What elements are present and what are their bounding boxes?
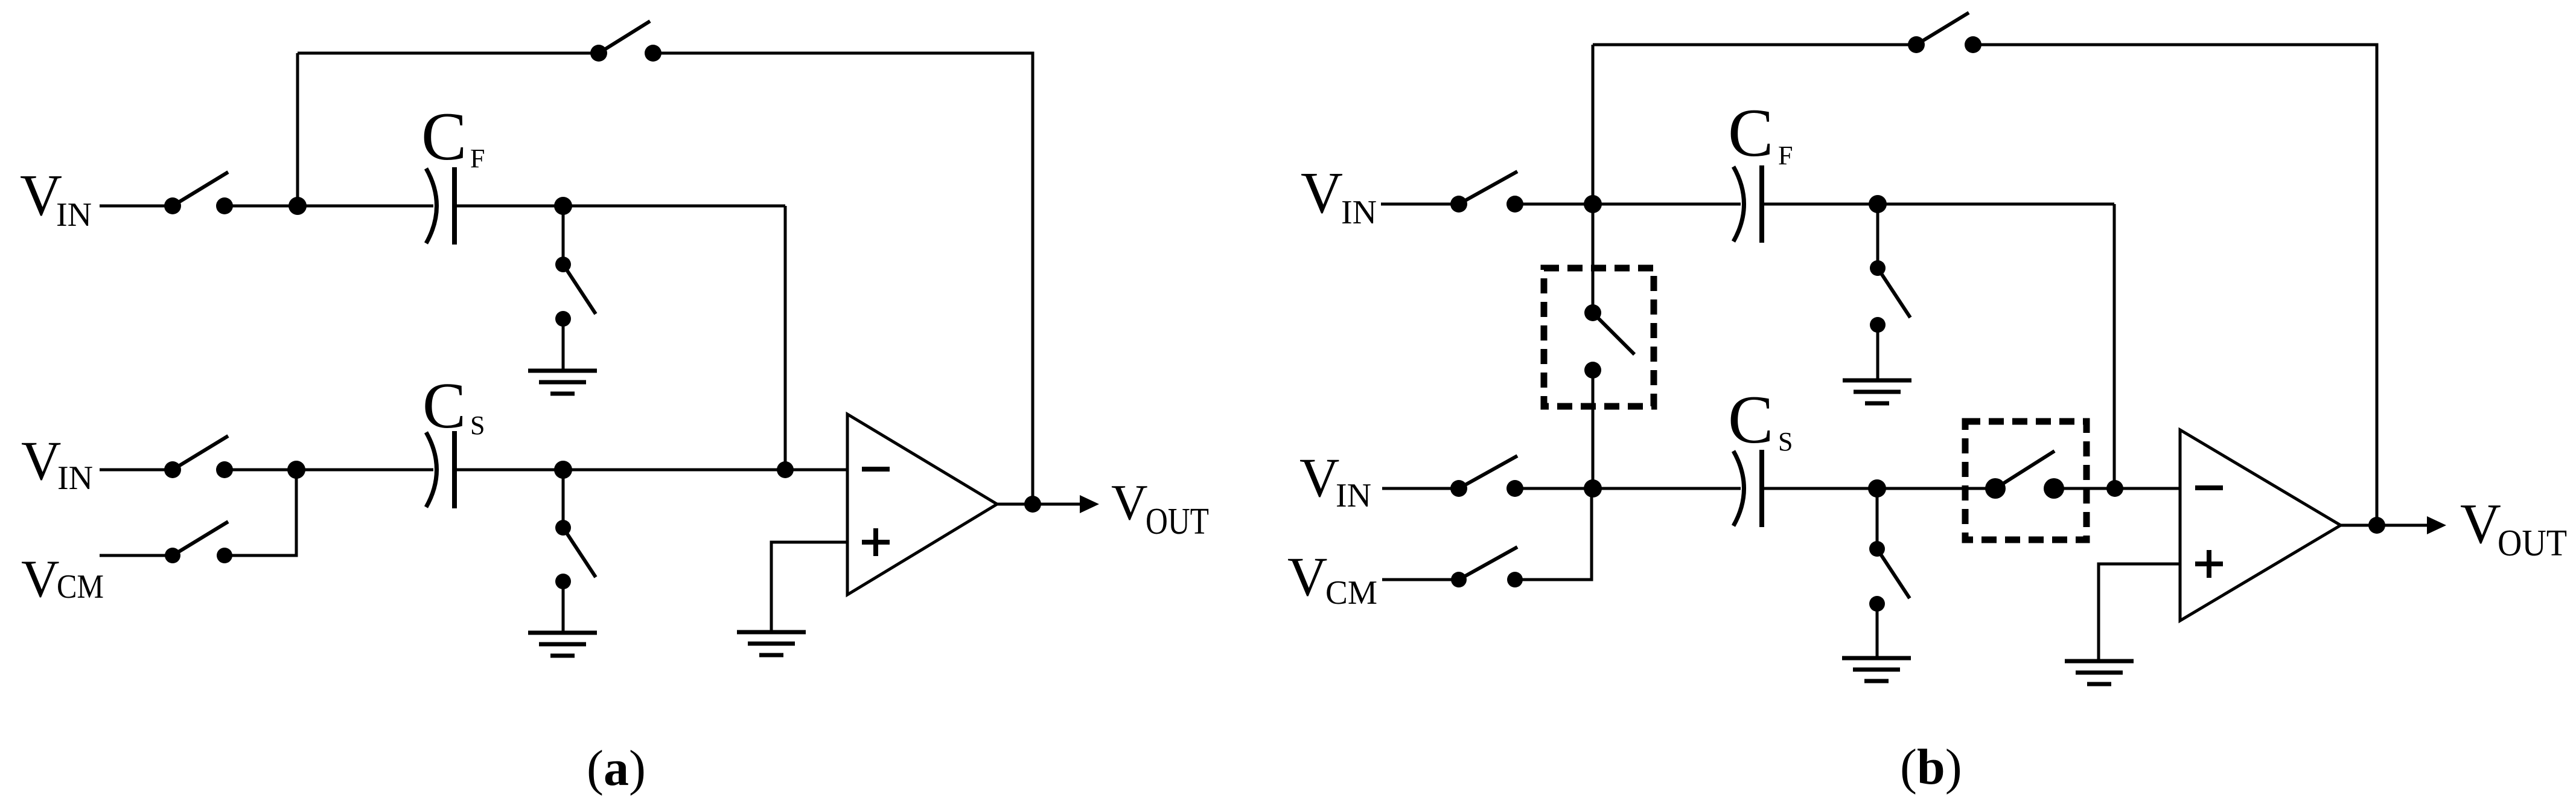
switch S8b (inside DB2, horizontal) xyxy=(1985,451,2064,499)
node C junction VCM join (b) xyxy=(1584,479,1602,497)
wire junction to CF (b) xyxy=(1593,203,1741,206)
node E summing junction (b) xyxy=(2106,480,2123,497)
wire CF to corner xyxy=(454,205,785,208)
capacitor CF (b) xyxy=(1733,165,1762,243)
wire VCM to junction xyxy=(225,470,296,555)
arrow output (a) xyxy=(1080,495,1099,513)
node A junction (b) xyxy=(1584,195,1602,213)
switch S2b (feedback, open) xyxy=(1908,13,1981,53)
dashed box DB2 xyxy=(1965,421,2087,540)
capacitor CS (b) xyxy=(1733,450,1762,527)
svg-text:IN: IN xyxy=(56,196,92,234)
capacitor CS (a) xyxy=(426,431,454,508)
op-amp U1a plus sign xyxy=(862,528,890,556)
node VOUT (a) label xyxy=(1111,475,1209,542)
label CS (a) xyxy=(422,370,485,442)
wire switch to CS (b) xyxy=(1515,487,1741,490)
wire top feedback right segment xyxy=(653,53,1033,504)
node VOUT (b) label xyxy=(2460,493,2567,564)
wire switch to ground stem (b) xyxy=(1876,325,1879,380)
node C junction VCM join (a) xyxy=(287,461,305,479)
switch S6b (VCM, open) xyxy=(1451,547,1523,587)
wire switch to ground stem (b) xyxy=(1876,604,1879,658)
wire top feedback right segment (b) xyxy=(1973,45,2377,525)
ground G1a xyxy=(528,371,597,394)
svg-text:V: V xyxy=(1299,447,1339,508)
svg-text:OUT: OUT xyxy=(2498,523,2567,564)
switch S5b (CS bottom plate to ground) xyxy=(1869,541,1910,612)
svg-text:V: V xyxy=(1111,475,1148,531)
wire switch to junction xyxy=(225,205,298,208)
wire node B to switch (b) xyxy=(1876,204,1879,268)
ground G3a xyxy=(737,632,806,655)
svg-text:CM: CM xyxy=(1325,574,1377,612)
node F output (a) xyxy=(1024,496,1041,513)
wire VIN(a) lower lead xyxy=(100,469,170,472)
wire top feedback left segment xyxy=(298,52,599,55)
svg-text:V: V xyxy=(21,430,61,491)
svg-text:IN: IN xyxy=(1341,194,1377,231)
caption (b) xyxy=(1900,739,1962,795)
svg-text:C: C xyxy=(421,99,467,174)
wire VIN(b) upper lead xyxy=(1381,203,1458,206)
op-amp U1b minus sign xyxy=(2195,485,2223,490)
node D after CS (a) xyxy=(554,461,572,479)
wire switch to ground stem xyxy=(562,581,565,633)
ground G2a xyxy=(528,633,597,656)
svg-text:S: S xyxy=(470,411,485,440)
svg-text:(a): (a) xyxy=(587,740,646,796)
wire top feedback left segment (b) xyxy=(1593,43,1916,46)
op-amp U1a minus sign xyxy=(862,467,890,472)
svg-text:OUT: OUT xyxy=(1146,501,1209,542)
wire CF to corner (b) xyxy=(1762,203,2114,206)
wire corner down to inverting row (b) xyxy=(2113,204,2116,488)
wire corner down to inverting input row xyxy=(784,206,787,470)
svg-text:S: S xyxy=(1778,427,1793,456)
svg-text:V: V xyxy=(1301,161,1343,225)
wire switch to ground stem xyxy=(562,319,565,371)
node VCM (a) label xyxy=(21,550,104,609)
wire non-inverting input to ground xyxy=(771,542,847,632)
wire node A down into box xyxy=(1592,204,1595,313)
ground G1b xyxy=(1843,380,1911,403)
switch S5a (CS bottom plate to ground) xyxy=(555,520,596,589)
switch S1b (VIN upper, open) xyxy=(1450,171,1523,213)
wire node B to switch xyxy=(562,206,565,264)
node VIN (a) lower label xyxy=(21,430,93,497)
node VIN (a) upper label xyxy=(20,163,92,234)
svg-text:IN: IN xyxy=(57,459,93,497)
svg-text:V: V xyxy=(2460,493,2501,555)
node VIN (b) lower label xyxy=(1299,447,1371,514)
svg-text:CM: CM xyxy=(57,568,104,606)
node D after CS (b) xyxy=(1868,479,1886,497)
wire junction to CF xyxy=(298,205,433,208)
node E summing junction (a) xyxy=(777,461,794,478)
wire switch to junction xyxy=(1515,203,1593,206)
wire VIN(a) upper lead xyxy=(100,205,170,208)
op-amp U1b plus sign xyxy=(2195,550,2223,578)
wire CS to dashed switch (b) xyxy=(1762,487,1995,490)
node VIN (b) upper label xyxy=(1301,161,1377,231)
node VCM (b) label xyxy=(1287,546,1377,612)
ground G2b xyxy=(1842,658,1911,681)
svg-text:C: C xyxy=(422,370,466,442)
switch S1a (VIN upper, open) xyxy=(164,172,233,214)
svg-text:V: V xyxy=(1287,546,1327,607)
svg-text:C: C xyxy=(1728,382,1773,458)
switch S4b (VIN lower, open) xyxy=(1450,456,1523,497)
wire op-amp output xyxy=(997,503,1081,506)
wire switch to CS xyxy=(225,469,433,472)
ground G3b xyxy=(2065,661,2134,684)
wire op-amp output (b) xyxy=(2341,524,2428,527)
switch S4a (VIN lower, open) xyxy=(164,436,233,478)
wire box to op-amp (b) xyxy=(2054,487,2180,490)
node B after CF (b) xyxy=(1869,195,1887,213)
arrow output (b) xyxy=(2427,516,2446,534)
wire vertical to top feedback (b) xyxy=(1592,45,1595,204)
node A junction (a) xyxy=(289,197,307,215)
wire VCM to junction (b) xyxy=(1515,488,1592,580)
wire VCM(b) lead xyxy=(1382,578,1459,581)
wire box to CS row junction xyxy=(1592,370,1595,488)
switch S7b (inside DB1, vertical) xyxy=(1584,304,1634,379)
wire VIN(b) lower lead xyxy=(1382,487,1459,490)
svg-text:V: V xyxy=(21,550,60,609)
caption (a) xyxy=(587,740,646,796)
node B after CF (a) xyxy=(554,197,572,215)
switch S3a (CF top plate to ground) xyxy=(555,257,596,327)
op-amp U1b triangle xyxy=(2180,430,2341,621)
wire non-inverting input to ground (b) xyxy=(2099,564,2180,661)
svg-text:C: C xyxy=(1728,95,1773,171)
label CS (b) xyxy=(1728,382,1793,458)
wire node D to switch xyxy=(562,470,565,528)
label CF (b) xyxy=(1728,95,1793,171)
wire vertical to top feedback xyxy=(296,53,299,206)
wire CS to op-amp xyxy=(454,469,847,472)
wire node D to switch (b) xyxy=(1876,488,1879,549)
svg-text:IN: IN xyxy=(1336,477,1371,514)
label CF (a) xyxy=(421,99,485,174)
switch S3b (CF top plate to ground) xyxy=(1870,260,1910,333)
switch S6a (VCM, open) xyxy=(165,522,232,563)
node F output (b) xyxy=(2368,517,2385,534)
dashed box DB1 xyxy=(1544,268,1654,406)
capacitor CF (a) xyxy=(426,167,454,245)
svg-text:F: F xyxy=(1778,141,1793,170)
wire VCM(a) lead xyxy=(100,554,170,557)
op-amp U1a triangle xyxy=(847,414,997,595)
svg-text:(b): (b) xyxy=(1900,739,1962,795)
switch S2a (feedback, open) xyxy=(590,21,662,62)
svg-text:F: F xyxy=(470,144,485,173)
